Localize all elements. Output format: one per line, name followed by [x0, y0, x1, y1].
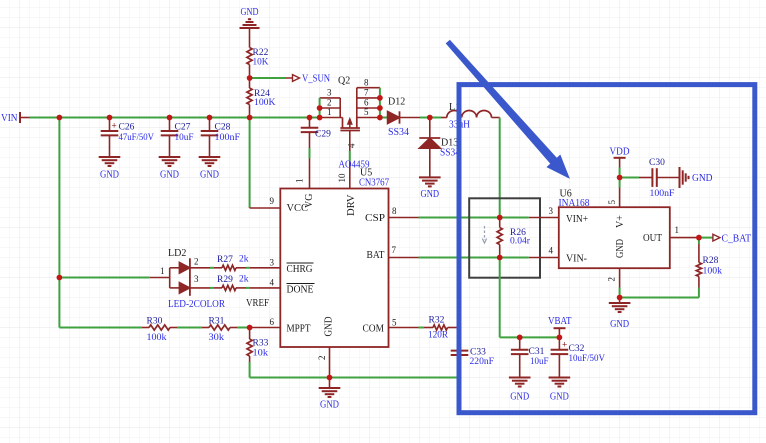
- resistor R29: [190, 275, 250, 291]
- wire VDD to C30: [620, 177, 639, 179]
- U6 pin names: [566, 200, 679, 282]
- svg-text:R32: R32: [429, 316, 445, 326]
- svg-text:5: 5: [607, 200, 617, 205]
- ground C28: [199, 157, 221, 181]
- resistor R33: [247, 328, 269, 363]
- svg-text:4: 4: [549, 246, 554, 256]
- svg-text:3: 3: [327, 88, 332, 98]
- svg-text:C32: C32: [569, 344, 585, 354]
- svg-text:100nF: 100nF: [650, 189, 675, 199]
- port C_BAT: [713, 234, 751, 245]
- capacitor C33: [451, 328, 494, 378]
- svg-text:220nF: 220nF: [470, 357, 495, 367]
- svg-text:V_SUN: V_SUN: [302, 74, 330, 85]
- svg-text:2k: 2k: [239, 255, 249, 265]
- svg-text:10k: 10k: [253, 349, 269, 359]
- wire D12 to node: [400, 117, 430, 119]
- svg-text:V+: V+: [615, 215, 626, 228]
- ground C27: [159, 157, 181, 181]
- wire U5 pin4 stub: [250, 278, 280, 288]
- wire Q2 gate to DRV: [337, 131, 350, 189]
- svg-text:1: 1: [675, 225, 680, 235]
- svg-text:GND: GND: [615, 239, 626, 258]
- svg-text:1: 1: [295, 179, 305, 184]
- svg-text:R22: R22: [253, 48, 269, 58]
- node VDD junction: [617, 175, 623, 181]
- op-amp U6 INA168 body: [559, 189, 670, 269]
- node switch junction: [427, 115, 433, 121]
- svg-text:CN3767: CN3767: [359, 178, 389, 189]
- diode D12: [388, 97, 410, 139]
- svg-text:GND: GND: [610, 319, 629, 330]
- svg-text:Q2: Q2: [338, 76, 350, 87]
- svg-text:3: 3: [270, 257, 275, 267]
- svg-text:C31: C31: [529, 347, 545, 357]
- capacitor C26: [101, 118, 154, 158]
- svg-text:10uF/50V: 10uF/50V: [569, 354, 606, 364]
- box current sense: [469, 198, 540, 277]
- svg-text:5: 5: [364, 107, 369, 117]
- svg-text:4: 4: [270, 278, 275, 288]
- wire U5 pin3 stub: [250, 257, 280, 268]
- svg-text:LED-2COLOR: LED-2COLOR: [168, 299, 225, 310]
- svg-text:2: 2: [194, 257, 199, 267]
- resistor R22: [247, 48, 269, 79]
- node OUT junction: [696, 235, 702, 241]
- wire U6 pin2: [619, 268, 621, 297]
- svg-text:VREF: VREF: [246, 298, 269, 309]
- svg-text:COM: COM: [363, 324, 385, 335]
- svg-text:VIN-: VIN-: [566, 254, 587, 265]
- resistor R27: [190, 255, 250, 271]
- ground C32: [549, 378, 571, 403]
- capacitor C27: [161, 118, 194, 158]
- resistor R26: [497, 218, 531, 258]
- wire MPPT row left: [59, 327, 142, 329]
- svg-text:120R: 120R: [428, 331, 449, 341]
- svg-text:100K: 100K: [254, 98, 276, 108]
- node Q2 drain junctions: [377, 95, 383, 120]
- ground C30: [680, 167, 713, 188]
- svg-text:7: 7: [364, 88, 369, 98]
- capacitor C28: [201, 118, 240, 158]
- resistor R24: [247, 78, 276, 118]
- wire U6 pin1 stub: [670, 237, 699, 239]
- svg-text:OUT: OUT: [643, 233, 662, 244]
- svg-text:GND: GND: [320, 400, 339, 411]
- svg-text:VG: VG: [304, 194, 315, 208]
- wire CSP rail: [389, 217, 529, 219]
- svg-text:7: 7: [392, 245, 397, 255]
- led LD2: [150, 248, 226, 310]
- svg-text:3: 3: [549, 206, 554, 216]
- svg-text:CHRG: CHRG: [287, 264, 313, 275]
- svg-text:GND: GND: [100, 170, 119, 181]
- svg-text:10uF: 10uF: [175, 133, 194, 143]
- svg-text:R29: R29: [217, 275, 233, 285]
- svg-text:D12: D12: [388, 97, 405, 108]
- svg-text:2: 2: [317, 356, 327, 361]
- node Q2 source junctions: [317, 105, 323, 111]
- wire R31 to MPPT: [237, 327, 250, 329]
- wire Q2 to D12: [380, 117, 388, 119]
- ground C31: [509, 378, 531, 403]
- svg-text:2: 2: [607, 277, 617, 282]
- svg-text:3: 3: [194, 274, 199, 284]
- node MPPT junction: [247, 325, 253, 331]
- svg-text:C26: C26: [119, 123, 135, 133]
- svg-text:6: 6: [270, 317, 275, 327]
- svg-text:GND: GND: [692, 173, 713, 184]
- svg-text:BAT: BAT: [367, 250, 385, 261]
- svg-text:VIN+: VIN+: [566, 214, 588, 225]
- svg-text:R28: R28: [703, 256, 719, 266]
- wire V_SUN: [250, 77, 286, 79]
- svg-text:R30: R30: [147, 317, 163, 327]
- wire U5 pin2: [329, 347, 331, 378]
- svg-text:10uF: 10uF: [530, 357, 549, 367]
- svg-text:CSP: CSP: [365, 213, 385, 224]
- wire OUT to port: [699, 237, 713, 239]
- svg-text:GND: GND: [160, 170, 179, 181]
- svg-text:DRV: DRV: [346, 194, 357, 216]
- svg-text:5: 5: [392, 318, 397, 328]
- wire U6 pin3 stub: [529, 206, 559, 218]
- highlight frame: [459, 85, 755, 413]
- transistor Q2 left pins: [320, 88, 343, 118]
- svg-text:R33: R33: [253, 339, 269, 349]
- wire U6 pin4 stub: [529, 246, 559, 258]
- svg-text:GND: GND: [324, 317, 335, 337]
- svg-text:C29: C29: [315, 130, 331, 140]
- svg-text:8: 8: [392, 206, 397, 216]
- node VBAT junction: [557, 335, 563, 341]
- svg-text:VDD: VDD: [610, 147, 630, 158]
- capacitor C32: [551, 337, 606, 377]
- wire VCC supply: [250, 118, 281, 209]
- svg-text:100k: 100k: [703, 267, 723, 277]
- node R26 top: [497, 215, 503, 221]
- wire LED pin1: [59, 277, 149, 279]
- annotation arrow: [447, 41, 569, 177]
- svg-text:DONE: DONE: [287, 285, 314, 296]
- svg-text:+: +: [562, 340, 567, 350]
- svg-text:C27: C27: [175, 123, 191, 133]
- svg-text:C28: C28: [215, 123, 231, 133]
- svg-text:AO4459: AO4459: [339, 160, 370, 171]
- wire U5 pin6 stub: [250, 317, 281, 328]
- svg-text:GND: GND: [200, 170, 219, 181]
- junction dots overlay: [57, 75, 702, 380]
- svg-text:8: 8: [364, 77, 369, 87]
- svg-text:1: 1: [327, 107, 332, 117]
- svg-text:C30: C30: [649, 158, 665, 168]
- svg-text:2: 2: [327, 98, 332, 108]
- transistor Q2 designator: [338, 76, 350, 87]
- current arrow: [482, 226, 486, 243]
- wire switch node down: [499, 118, 501, 218]
- ground U6: [609, 298, 631, 331]
- port VIN: [1, 112, 30, 124]
- node R26 bottom: [497, 255, 503, 261]
- svg-text:4: 4: [347, 143, 357, 148]
- wire R30-R31: [177, 327, 202, 329]
- svg-text:GND: GND: [241, 7, 259, 18]
- svg-text:+: +: [112, 121, 117, 131]
- svg-text:MPPT: MPPT: [287, 324, 311, 335]
- svg-text:LD2: LD2: [168, 248, 186, 259]
- transistor Q2 right pins: [357, 77, 380, 117]
- power port GND top: [240, 7, 260, 48]
- svg-text:GND: GND: [550, 392, 569, 403]
- node U6 ground junction: [617, 295, 623, 301]
- svg-text:R27: R27: [217, 255, 233, 265]
- transistor Q2 mosfet body: [340, 118, 360, 149]
- node ground rail junction: [327, 375, 333, 381]
- inductor L1: [430, 102, 500, 131]
- svg-text:VBAT: VBAT: [548, 316, 572, 327]
- power port VBAT: [548, 316, 572, 337]
- svg-text:2k: 2k: [239, 275, 249, 285]
- ground C26: [99, 157, 121, 181]
- wire C29 to U5 pin1: [295, 148, 310, 189]
- node LED pin1: [57, 275, 63, 281]
- op-amp U5 CN3767 body: [280, 160, 389, 348]
- wire R33 to ground rail: [250, 362, 460, 378]
- svg-text:100nF: 100nF: [215, 133, 241, 143]
- svg-text:1: 1: [160, 266, 165, 276]
- svg-text:R31: R31: [209, 317, 225, 327]
- resistor R32: [419, 316, 460, 341]
- wire VIN left drop: [58, 118, 60, 328]
- U5 pin names: [270, 194, 398, 360]
- svg-text:INA168: INA168: [559, 198, 590, 209]
- wire battery rail down: [500, 258, 560, 338]
- svg-text:10: 10: [337, 173, 347, 183]
- svg-text:9: 9: [270, 196, 275, 206]
- wire R28 to ground rail: [620, 288, 699, 298]
- wire Q2 drain bus: [379, 88, 381, 118]
- svg-text:47uF/50V: 47uF/50V: [119, 133, 155, 143]
- resistor R28: [696, 238, 722, 288]
- svg-text:VIN: VIN: [1, 113, 18, 124]
- resistor R30: [142, 317, 177, 344]
- wire BAT rail: [389, 257, 529, 259]
- svg-text:GND: GND: [421, 189, 440, 200]
- node V_SUN junction: [247, 75, 253, 81]
- ground D13: [419, 177, 441, 200]
- svg-text:SS34: SS34: [388, 127, 409, 138]
- svg-text:0.04r: 0.04r: [510, 237, 531, 247]
- resistor R31: [202, 317, 237, 344]
- svg-text:100k: 100k: [147, 333, 167, 343]
- svg-text:10K: 10K: [253, 58, 269, 68]
- U5 pin VREF label: [246, 298, 269, 309]
- wire VDD to pin5: [619, 168, 621, 178]
- svg-text:6: 6: [364, 98, 369, 108]
- ground U5: [319, 378, 341, 411]
- wire Q2 source bus: [319, 98, 321, 118]
- power port VDD: [610, 147, 630, 168]
- node main rail junctions: [57, 115, 323, 121]
- wire main VIN rail: [30, 117, 320, 119]
- diode D13: [419, 118, 460, 178]
- capacitor C31: [511, 337, 549, 377]
- capacitor C29: [301, 118, 331, 149]
- svg-text:GND: GND: [510, 392, 529, 403]
- svg-text:30k: 30k: [209, 333, 225, 343]
- node C31 junction: [517, 335, 523, 341]
- port V_SUN: [286, 74, 330, 85]
- wire U6 pin5: [619, 178, 621, 208]
- wire U5 pin5 stub: [389, 327, 419, 329]
- svg-text:C_BAT: C_BAT: [722, 234, 752, 245]
- capacitor C30: [639, 158, 680, 199]
